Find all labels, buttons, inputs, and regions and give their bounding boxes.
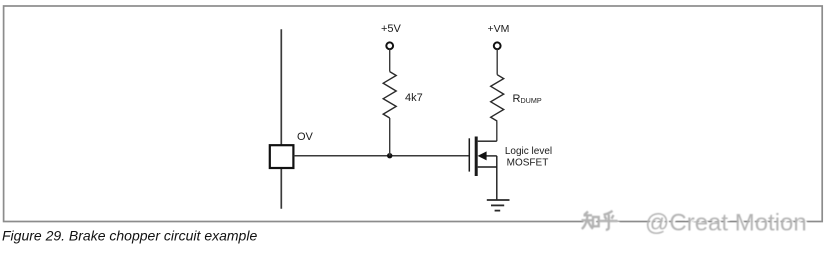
wire: RDUMP to drain <box>496 121 498 141</box>
white emboss copies <box>584 213 620 232</box>
watermark 知乎 @Creat Motion <box>582 210 809 239</box>
source lead <box>478 166 497 168</box>
svg-text:MOSFET: MOSFET <box>507 158 549 169</box>
node OV (pin box) <box>270 145 294 168</box>
resistor 4k7 <box>383 72 396 118</box>
wire: +5V to resistor <box>389 49 391 71</box>
wire: gate wire from OV box to MOSFET gate <box>294 155 469 157</box>
svg-text:Figure 29. Brake chopper circu: Figure 29. Brake chopper circuit example <box>2 227 257 243</box>
svg-text:+5V: +5V <box>381 23 402 35</box>
junction dot <box>387 153 392 158</box>
wire: left vertical bus <box>280 29 282 209</box>
transistor Q1 logic-level MOSFET <box>469 137 497 201</box>
drain lead <box>478 140 497 142</box>
svg-text:Logic level: Logic level <box>505 146 552 157</box>
svg-text:+VM: +VM <box>488 23 510 35</box>
resistor RDUMP <box>491 75 504 121</box>
wire: 4k7 to gate node <box>389 118 391 156</box>
gray strokes <box>582 211 618 230</box>
body lead with arrow <box>486 155 497 157</box>
gate plate <box>468 138 470 171</box>
svg-text:@Creat Motion: @Creat Motion <box>645 210 807 237</box>
wire: +VM to RDUMP <box>496 49 498 74</box>
svg-text:OV: OV <box>297 131 314 143</box>
ground <box>487 200 510 211</box>
channel bar <box>475 137 478 177</box>
svg-text:4k7: 4k7 <box>405 92 423 104</box>
source vertical to ground <box>496 156 498 200</box>
